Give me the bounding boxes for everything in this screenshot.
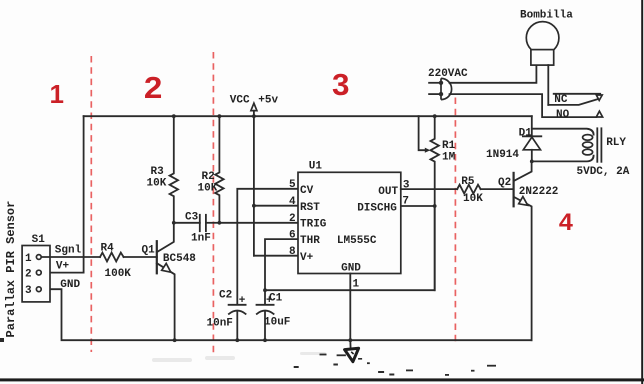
- speck marks near ground: [0, 338, 496, 376]
- section divider dashed line 2: [212, 52, 214, 355]
- NC contact wire: [554, 93, 601, 95]
- junction R3 top rail: [172, 114, 176, 118]
- svg-text:BC548: BC548: [163, 253, 196, 265]
- wire bottom GND rail: [42, 289, 532, 340]
- S1 pin 1 circle: [36, 255, 41, 260]
- svg-text:R1: R1: [442, 140, 456, 152]
- svg-text:6: 6: [289, 229, 296, 241]
- svg-text:3: 3: [332, 67, 350, 102]
- resistor R2: [215, 116, 223, 223]
- transistor Q2 emitter: [514, 197, 532, 340]
- switch arm common: [548, 99, 597, 105]
- svg-text:Parallax PIR Sensor: Parallax PIR Sensor: [4, 201, 18, 338]
- connector S1 body: [22, 246, 50, 302]
- NC terminal triangle: [596, 95, 602, 100]
- junction D1 coil Q2 collector: [530, 160, 534, 164]
- wire C1 to GND rail: [264, 311, 266, 340]
- junction R2 C3 TRIG node: [218, 221, 222, 225]
- svg-text:THR: THR: [300, 235, 320, 247]
- plug 220VAC prong 1: [429, 82, 441, 84]
- svg-text:5: 5: [289, 179, 296, 191]
- wire R4 to Q1 base: [124, 256, 157, 258]
- lamp lead right to switch arm: [547, 65, 549, 105]
- wire U1 pin7 DISCHG stub: [401, 205, 435, 207]
- svg-text:4: 4: [559, 209, 574, 236]
- capacitor C3: [199, 215, 201, 231]
- svg-text:V+: V+: [56, 260, 70, 272]
- ground symbol stub: [349, 340, 351, 348]
- svg-text:GND: GND: [341, 263, 361, 275]
- svg-text:1N914: 1N914: [486, 149, 519, 161]
- relay coil bottom wire: [532, 156, 594, 162]
- wire C3 to R2 bottom node: [206, 222, 220, 224]
- svg-text:C3: C3: [185, 212, 199, 224]
- plug 220VAC body: [441, 78, 452, 99]
- wire TRIG to node: [219, 222, 298, 224]
- wire C2 to GND rail: [236, 311, 238, 340]
- svg-text:1: 1: [353, 279, 360, 291]
- junction RST to VCC riser: [252, 204, 256, 208]
- faint smudge marks: [152, 352, 326, 362]
- lamp base: [531, 50, 554, 66]
- wire V+ riser from S1 pin2 to top rail: [42, 116, 84, 272]
- power VCC arrow: [251, 103, 257, 111]
- potentiometer R1: [431, 116, 439, 290]
- junction DISCHG R1 node: [433, 204, 437, 208]
- plug 220VAC prong 2: [429, 93, 441, 95]
- svg-text:NO: NO: [556, 109, 570, 121]
- svg-text:5VDC, 2A: 5VDC, 2A: [577, 166, 630, 178]
- wire node A to C3: [174, 222, 200, 224]
- ground left dash: [338, 354, 346, 356]
- transistor Q1 collector: [157, 223, 174, 252]
- svg-text:V+: V+: [300, 252, 314, 264]
- svg-text:CV: CV: [300, 185, 314, 197]
- svg-text:1M: 1M: [442, 151, 456, 163]
- resistor R3: [170, 116, 178, 223]
- window bottom edge bar: [0, 378, 644, 381]
- svg-text:10nF: 10nF: [207, 318, 233, 330]
- relay coil turn 2: [583, 142, 593, 148]
- svg-text:2: 2: [289, 213, 296, 225]
- wire S1 pin1 to R4: [42, 256, 101, 258]
- svg-text:1nF: 1nF: [191, 233, 211, 245]
- svg-text:TRIG: TRIG: [300, 219, 327, 231]
- diode D1 triangle: [523, 137, 540, 150]
- junction R1 top rail: [433, 114, 437, 118]
- svg-text:+5v: +5v: [258, 94, 278, 106]
- resistor R4: [100, 253, 124, 262]
- svg-text:10K: 10K: [463, 193, 483, 205]
- svg-text:RST: RST: [300, 202, 320, 214]
- svg-text:U1: U1: [309, 161, 323, 173]
- junction C2 at GND rail: [235, 338, 239, 342]
- svg-text:Sgnl: Sgnl: [55, 245, 82, 257]
- relay RLY coil top wire: [532, 129, 594, 135]
- svg-text:10K: 10K: [147, 177, 167, 189]
- wire plug top to bulb: [450, 65, 537, 83]
- capacitor C1 top plate: [257, 304, 274, 306]
- resistor R5: [457, 185, 480, 194]
- svg-text:D1: D1: [519, 127, 533, 139]
- svg-text:10uF: 10uF: [264, 317, 290, 329]
- relay coil turn 3: [583, 149, 593, 155]
- transistor Q2 base bar: [512, 173, 514, 206]
- R1 wiper arm: [419, 116, 426, 150]
- lamp Bombilla bulb: [526, 22, 559, 55]
- diode D1 cathode bar: [523, 135, 541, 137]
- wire U1 pin1 GND to rail: [349, 274, 351, 341]
- svg-text:2: 2: [25, 268, 32, 280]
- wire U1 pin3 OUT to R5: [401, 188, 457, 190]
- junction Q1 emitter at GND rail: [173, 338, 177, 342]
- junction GND pin at rail: [348, 338, 352, 342]
- NO terminal triangle: [596, 111, 602, 117]
- svg-text:VCC: VCC: [230, 94, 250, 106]
- capacitor C2 bottom curved plate: [229, 311, 246, 314]
- node VCC top rail wire: [84, 115, 532, 117]
- plug prong dot 2: [439, 92, 443, 96]
- relay core line 1: [596, 128, 598, 162]
- wire U1 pin4 RST stub: [254, 205, 298, 207]
- wire THR node to R1 DISCHG riser: [265, 206, 435, 290]
- S1 pin 2 circle: [36, 270, 41, 275]
- svg-text:+: +: [239, 295, 246, 307]
- transistor Q1 base bar: [156, 241, 158, 273]
- wire R5 to Q2 base: [481, 188, 514, 190]
- svg-text:R2: R2: [202, 171, 215, 183]
- svg-text:LM555C: LM555C: [337, 235, 377, 247]
- IC U1 LM555C body: [298, 172, 401, 273]
- capacitor C1 bottom curved plate: [257, 311, 274, 314]
- svg-text:220VAC: 220VAC: [428, 68, 468, 80]
- svg-text:NC: NC: [554, 94, 568, 106]
- plug prong dot 1: [439, 81, 443, 85]
- junction R3 C3 Q1 node: [172, 221, 176, 225]
- section divider dashed line 3: [454, 98, 456, 343]
- transistor Q2 collector: [514, 161, 532, 181]
- svg-text:R5: R5: [461, 176, 475, 188]
- ground symbol: [345, 348, 359, 361]
- svg-text:Bombilla: Bombilla: [520, 10, 573, 22]
- relay core line 2: [600, 128, 602, 162]
- svg-text:+: +: [266, 295, 273, 307]
- wire U1 pin8 V+ stub: [254, 255, 298, 257]
- svg-text:1: 1: [25, 253, 32, 265]
- wire U1 pin5 CV stub down to C2: [237, 189, 298, 305]
- svg-text:7: 7: [402, 196, 409, 208]
- transistor Q2 emitter arrow: [519, 197, 528, 206]
- window right edge bar: [641, 0, 643, 384]
- junction THR C1 DISCHG node: [263, 288, 267, 292]
- wire VCC riser to RST and V+ pin: [253, 116, 255, 256]
- wire plug bottom to NO contact: [450, 94, 597, 117]
- wire top rail to D1: [531, 116, 533, 136]
- svg-text:OUT: OUT: [378, 186, 398, 198]
- junction C1 at GND rail: [263, 338, 267, 342]
- capacitor C2 top plate: [229, 304, 246, 306]
- S1 pin 3 circle: [36, 287, 41, 292]
- wire U1 pin6 THR stub down to C1: [265, 239, 298, 304]
- transistor Q1 emitter arrow: [162, 263, 171, 272]
- svg-text:3: 3: [25, 285, 32, 297]
- svg-text:2: 2: [144, 70, 163, 105]
- relay coil turn 1: [583, 135, 593, 141]
- svg-text:8: 8: [289, 246, 296, 258]
- svg-text:DISCHG: DISCHG: [357, 203, 397, 215]
- svg-text:S1: S1: [32, 234, 46, 246]
- junction VCC at top rail: [252, 114, 256, 118]
- transistor Q1 emitter: [157, 263, 175, 340]
- svg-text:4: 4: [289, 196, 296, 208]
- svg-text:GND: GND: [60, 279, 80, 291]
- svg-text:R4: R4: [101, 243, 115, 255]
- svg-text:1: 1: [49, 79, 63, 109]
- svg-text:10K: 10K: [198, 183, 218, 195]
- section divider dashed line 1: [90, 56, 92, 352]
- R1 wiper arrowhead: [425, 148, 431, 153]
- svg-text:Q2: Q2: [498, 177, 511, 189]
- svg-text:RLY: RLY: [606, 137, 626, 149]
- svg-text:2N2222: 2N2222: [519, 186, 559, 198]
- svg-text:100K: 100K: [105, 268, 132, 280]
- wire D1 anode to relay node: [531, 150, 533, 162]
- svg-text:C2: C2: [219, 290, 232, 302]
- svg-text:Q1: Q1: [142, 245, 156, 257]
- junction R2 top rail: [218, 114, 222, 118]
